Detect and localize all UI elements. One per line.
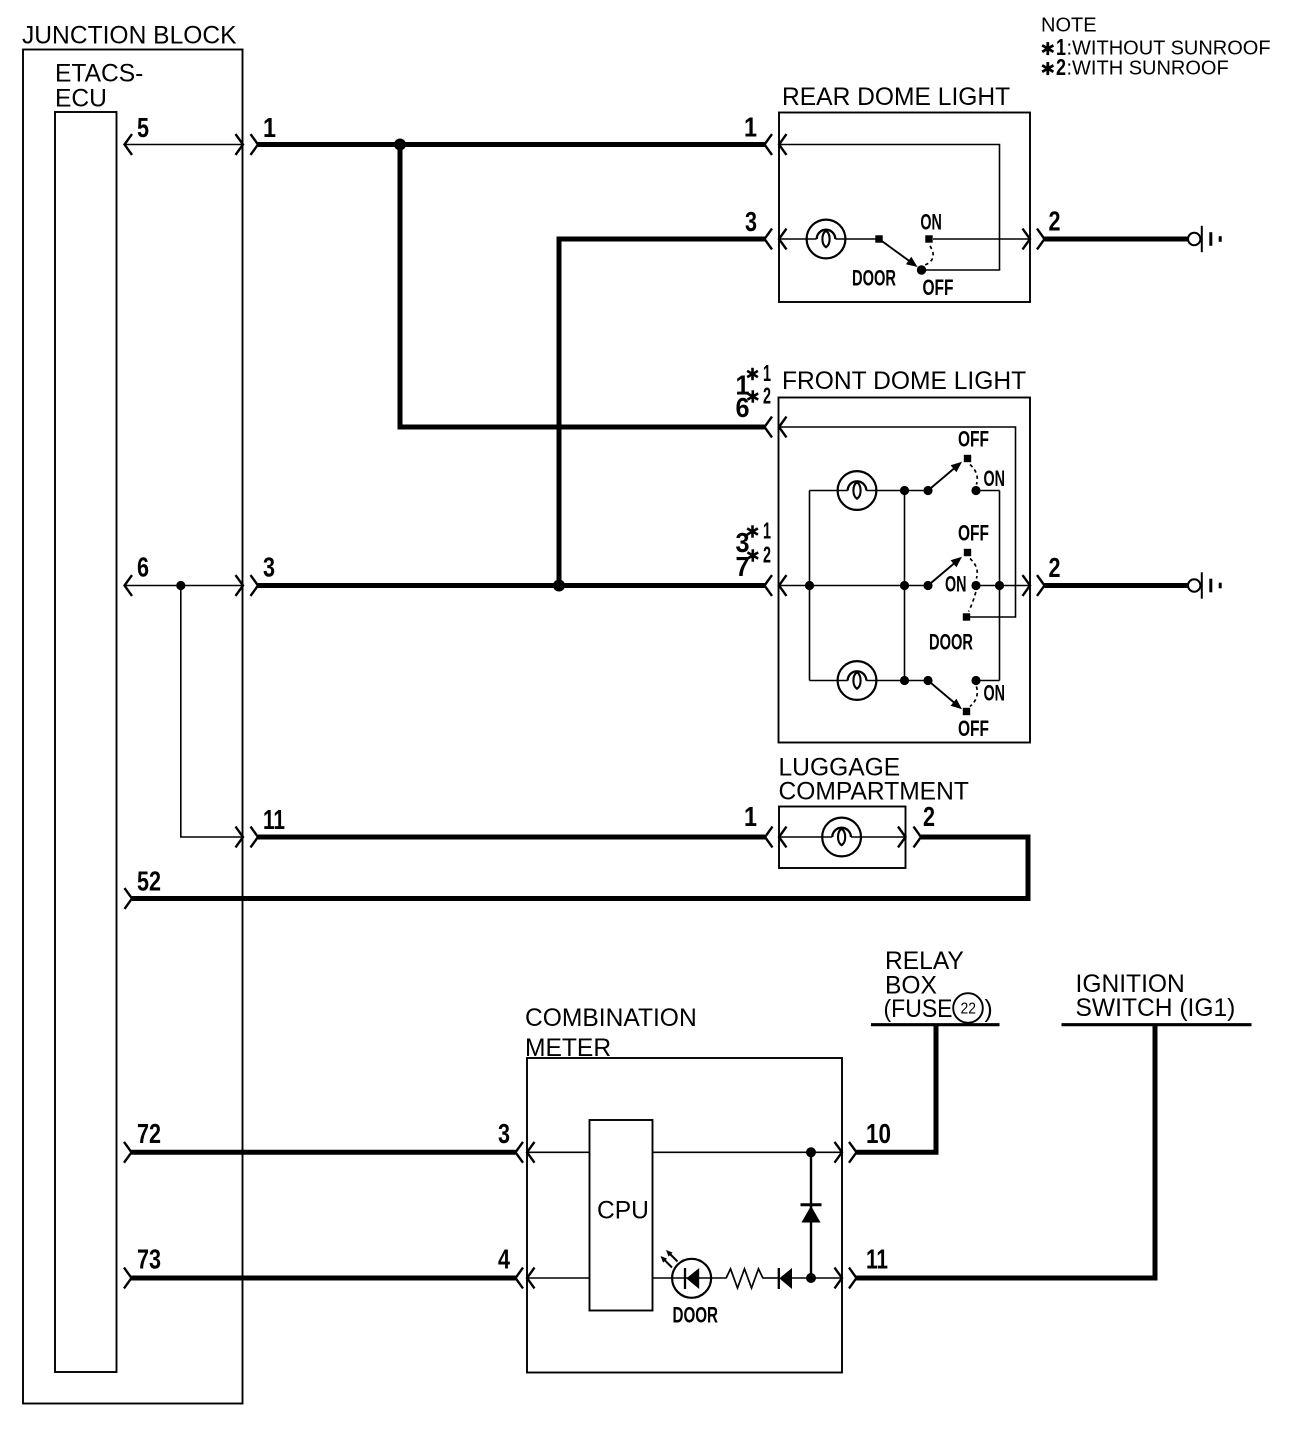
pin 5 label — [137, 112, 149, 143]
CPU box — [590, 1120, 653, 1311]
arrowhead at pin 72 (points right) — [124, 1142, 132, 1163]
wire luggage pin1 to lamp — [779, 836, 832, 838]
OFF label (rear dome) — [923, 275, 954, 300]
wire lamp to luggage pin2 — [851, 836, 906, 838]
rear dome lamp — [807, 220, 846, 259]
rear dome light box — [779, 113, 1030, 303]
DOOR label (switch2) — [929, 630, 973, 655]
front dome left bus vertical — [809, 491, 811, 681]
front dome right vertical (ON bus) — [999, 491, 1001, 681]
wire pin5 (thin, inside J/B) — [125, 144, 244, 146]
switch3 common contact — [923, 676, 932, 685]
wire CM pin3 to CPU — [527, 1151, 590, 1153]
arrowhead rear dome pin 2 (outside) — [1037, 229, 1045, 250]
svg-text::WITHOUT SUNROOF: :WITHOUT SUNROOF — [1067, 38, 1271, 60]
arrowhead luggage pin 2 (inside) — [898, 827, 906, 848]
wire lamp2 row — [810, 680, 925, 682]
svg-text:5: 5 — [137, 112, 149, 143]
svg-text:4: 4 — [498, 1244, 510, 1275]
svg-text:3: 3 — [745, 206, 757, 237]
wire J/B pin11 to luggage lamp pin1 (thick) — [258, 835, 765, 840]
svg-text:ON: ON — [920, 210, 942, 235]
arrowhead CM pin 10 (outside) — [849, 1142, 857, 1163]
relay box bottom bar — [871, 1023, 1000, 1026]
svg-text:2: 2 — [1049, 206, 1061, 237]
switch2 ON contact — [971, 581, 980, 590]
arrowhead CM pin 11 (outside) — [849, 1268, 857, 1289]
svg-text:11: 11 — [263, 804, 285, 835]
note star 1 — [1042, 42, 1053, 55]
OFF label (switch3) — [958, 716, 989, 741]
wire front dome pin2 to ground (thick) — [1045, 583, 1189, 588]
ETACS-ECU box — [55, 112, 117, 1372]
wire J/B pin1 to rear dome pin1 (thick) — [258, 142, 765, 147]
wire rear dome pin2 to ground (thick) — [1045, 237, 1189, 242]
arrowhead CM pin 10 (inside) — [835, 1142, 843, 1163]
svg-text:7: 7 — [736, 551, 750, 582]
svg-text:11: 11 — [866, 1244, 888, 1275]
switch2 DOOR contact — [963, 613, 970, 620]
svg-text:OFF: OFF — [958, 427, 989, 452]
arrowhead at ETACS-ECU pin 6 — [125, 575, 133, 596]
note *1 text — [1056, 34, 1271, 60]
arrowhead front dome pin 2 (outside) — [1037, 575, 1045, 596]
wire pin6 (thin, inside J/B) — [125, 585, 244, 587]
svg-text:2: 2 — [1049, 552, 1061, 583]
svg-text:OFF: OFF — [958, 716, 989, 741]
arrowhead rear dome pin 2 (inside) — [1023, 229, 1031, 250]
pin 3*1/7*2 label — [736, 518, 772, 583]
wire node A down and right to front dome pin 1/6 (thick) — [400, 142, 765, 427]
front dome node D3 — [995, 581, 1004, 590]
pin 1 label (luggage) — [744, 801, 757, 832]
svg-text:1: 1 — [744, 801, 757, 832]
wire diode to CM pin 11 — [792, 1277, 842, 1279]
diode D2 (series) — [779, 1268, 792, 1289]
svg-text:22: 22 — [961, 1001, 977, 1018]
switch3 OFF contact — [963, 708, 970, 715]
rear dome OFF contact dot — [917, 265, 926, 274]
ignition switch bottom bar — [1062, 1023, 1252, 1026]
wire ignition switch to CM pin 11 (thick) — [857, 1025, 1156, 1278]
pin 4 label (CM) — [498, 1244, 510, 1275]
arrowhead at pin 73 (points right) — [124, 1268, 132, 1289]
wire rear dome pin1 internal loop — [779, 145, 1000, 271]
switch1 dashed arc — [970, 465, 977, 485]
wire switch3 ON to right vertical — [976, 680, 1000, 682]
OFF label (switch1) — [958, 427, 989, 452]
arrowhead at J/B edge pin 3 (inside) — [236, 575, 244, 596]
svg-text:73: 73 — [137, 1244, 161, 1275]
svg-text:OFF: OFF — [923, 275, 954, 300]
svg-text:DOOR: DOOR — [929, 630, 973, 655]
svg-text:ON: ON — [984, 681, 1006, 706]
arrowhead rear dome pin 3 (inside) — [779, 229, 787, 250]
rear dome switch blade (DOOR position) — [879, 239, 918, 267]
svg-text:1: 1 — [744, 112, 757, 143]
rear dome light title — [782, 84, 1010, 111]
rear dome switch dashed arc ON-OFF — [925, 246, 934, 265]
note *2 text — [1056, 54, 1229, 80]
ground (rear dome) — [1188, 226, 1220, 252]
pin 1 label (rear dome light) — [744, 112, 757, 143]
svg-text:DOOR: DOOR — [852, 266, 896, 291]
arrowhead at pin 52 (points right) — [125, 888, 133, 909]
resistor — [726, 1269, 763, 1288]
arrowhead front dome pin 1/6 (outside) — [765, 417, 773, 438]
switch1 blade — [928, 462, 962, 491]
wire resistor to diode — [763, 1277, 779, 1279]
front dome node D1 — [805, 581, 814, 590]
arrowhead CM pin 11 (inside) — [835, 1268, 843, 1289]
pin 2 label (rear dome) — [1049, 206, 1061, 237]
luggage lamp — [822, 818, 861, 857]
ground (front dome) — [1188, 572, 1220, 598]
arrowhead at J/B edge pin 3 (outside) — [251, 575, 259, 596]
switch2 OFF contact — [964, 549, 971, 556]
pin 2 label (front dome) — [1049, 552, 1061, 583]
svg-text:DOOR: DOOR — [673, 1303, 719, 1328]
svg-text:2: 2 — [1056, 54, 1066, 80]
junction node A — [394, 139, 406, 151]
svg-text:2: 2 — [763, 383, 771, 409]
ETACS-ECU label — [55, 61, 143, 113]
fuse 22 label — [884, 993, 993, 1023]
arrowhead at J/B edge pin 1 (outside) — [251, 134, 259, 155]
wire pin3 to lamp — [779, 238, 817, 240]
svg-text:1: 1 — [763, 518, 771, 544]
wire ON contact to pin 2 — [933, 238, 1030, 240]
svg-text:72: 72 — [137, 1118, 161, 1149]
svg-text:ON: ON — [984, 466, 1006, 491]
svg-text:OFF: OFF — [958, 521, 989, 546]
wire lamp1 row — [810, 490, 925, 492]
svg-text:FRONT DOME LIGHT: FRONT DOME LIGHT — [782, 368, 1026, 395]
rear dome switch common contact — [875, 235, 882, 242]
junction node B (to pin 11 drop) — [176, 581, 185, 590]
junction node C — [553, 580, 565, 592]
wire pin72 (thick) — [132, 1150, 516, 1155]
arrowhead at rear dome pin 1 (inside) — [779, 134, 787, 155]
svg-text:6: 6 — [736, 392, 750, 423]
pin 11 label (CM) — [866, 1244, 888, 1275]
arrowhead CM pin 3 (inside) — [527, 1142, 535, 1163]
arrowhead at J/B edge pin 11 (outside) — [251, 827, 259, 848]
svg-text:10: 10 — [866, 1118, 891, 1149]
note title — [1041, 14, 1097, 36]
wire CPU to LED — [653, 1277, 727, 1279]
pin 10 label — [866, 1118, 891, 1149]
svg-text:CPU: CPU — [597, 1198, 649, 1225]
switch3 dashed arc — [970, 687, 977, 707]
wire CPU to CM pin10 — [653, 1151, 843, 1153]
front dome node L2 — [900, 676, 909, 685]
pin 3 label (rear dome light) — [745, 206, 757, 237]
note star 2 — [1042, 62, 1053, 75]
arrowhead luggage pin 2 (outside) — [914, 827, 922, 848]
combination meter title — [525, 1005, 697, 1062]
wire luggage pin2 down to pin52 row (thick) — [132, 837, 1028, 899]
OFF label (switch2) — [958, 521, 989, 546]
pin 6 label — [137, 552, 149, 583]
svg-text:SWITCH (IG1): SWITCH (IG1) — [1076, 995, 1236, 1022]
wire pin73 (thick) — [132, 1276, 516, 1281]
svg-text:NOTE: NOTE — [1041, 14, 1097, 36]
arrowhead front dome pin 1/6 (inside) — [779, 417, 787, 438]
junction node F — [806, 1273, 816, 1283]
ON label (switch3) — [984, 681, 1006, 706]
relay box label — [885, 948, 964, 1000]
arrowhead CM pin 3 (outside) — [516, 1142, 524, 1163]
pin 2 label (luggage) — [923, 801, 935, 832]
combination meter box — [527, 1058, 842, 1373]
switch1 OFF contact — [964, 455, 971, 462]
switch2 dashed arc lower — [969, 592, 976, 612]
switch3 ON contact — [971, 676, 980, 685]
front dome lamp 1 — [838, 471, 877, 510]
svg-text:(FUSE: (FUSE — [884, 996, 953, 1023]
arrowhead front dome pin 3/7 (outside) — [765, 575, 773, 596]
luggage lamp box — [779, 807, 906, 869]
arrowhead front dome pin 3/7 (inside) — [779, 575, 787, 596]
svg-text:2: 2 — [923, 801, 935, 832]
pin 3 label (J/B) — [263, 552, 275, 583]
arrowhead at ETACS-ECU pin 5 — [125, 134, 133, 155]
pin 3 label (CM) — [498, 1118, 510, 1149]
junction node E — [806, 1147, 816, 1157]
wire switch1 ON to right vertical — [976, 490, 1000, 492]
wire front dome pin1/6 to door contact — [779, 427, 1016, 617]
wire relay box fuse22 to CM pin 10 (thick) — [857, 1025, 937, 1153]
svg-text:3: 3 — [498, 1118, 510, 1149]
switch1 common contact — [923, 486, 932, 495]
LED emission arrows — [661, 1250, 678, 1268]
junction block box — [23, 50, 243, 1404]
svg-text:COMBINATION: COMBINATION — [525, 1005, 697, 1032]
ON label (rear dome) — [920, 210, 942, 235]
svg-text:JUNCTION BLOCK: JUNCTION BLOCK — [22, 23, 237, 50]
arrowhead rear dome pin 3 (outside) — [765, 229, 773, 250]
rear dome switch ON contact — [925, 235, 932, 242]
svg-text:ECU: ECU — [55, 85, 107, 112]
arrowhead front dome pin 2 (inside) — [1023, 575, 1031, 596]
switch1 ON contact — [971, 486, 980, 495]
pin 52 label — [137, 866, 161, 897]
svg-text:1: 1 — [263, 112, 276, 143]
svg-text:6: 6 — [137, 552, 149, 583]
svg-text:2: 2 — [763, 542, 771, 568]
arrowhead at rear dome pin 1 (outside) — [765, 134, 773, 155]
switch3 blade — [928, 681, 962, 710]
svg-text:ON: ON — [945, 572, 967, 597]
wire lamp to switch common — [835, 238, 879, 240]
pin 1 label (J/B) — [263, 112, 276, 143]
svg-text::WITH SUNROOF: :WITH SUNROOF — [1067, 58, 1229, 80]
front dome light title — [782, 368, 1026, 395]
svg-text:52: 52 — [137, 866, 161, 897]
wire rear dome pin3 left and down to front dome row (thick) — [559, 239, 765, 586]
DOOR label (LED) — [673, 1303, 719, 1328]
arrowhead luggage pin 1 (outside) — [765, 827, 773, 848]
svg-text:RELAY: RELAY — [885, 948, 964, 975]
pin 1*1/6*2 label — [736, 360, 772, 423]
wire switch2 ON to pin 2 — [976, 585, 1030, 587]
wire J/B pin3 to front dome pin 3/7 (thick) — [258, 583, 765, 588]
svg-text:ETACS-: ETACS- — [55, 61, 143, 88]
svg-text:COMPARTMENT: COMPARTMENT — [779, 778, 969, 805]
arrowhead CM pin 4 (outside) — [516, 1268, 524, 1289]
arrowhead luggage pin 1 (inside) — [779, 827, 787, 848]
CPU label — [597, 1198, 649, 1225]
switch2 blade — [928, 557, 962, 586]
pin 11 label (J/B) — [263, 804, 285, 835]
wire CM pin4 to CPU — [527, 1277, 590, 1279]
ignition switch label — [1076, 971, 1236, 1022]
svg-text:3: 3 — [263, 552, 275, 583]
wire front dome row D internal — [779, 585, 924, 587]
svg-text:REAR DOME LIGHT: REAR DOME LIGHT — [782, 84, 1010, 111]
ON label (switch1) — [984, 466, 1006, 491]
switch2 common contact — [923, 581, 932, 590]
diode D1 (shunt, vertical) — [801, 1152, 822, 1278]
junction block label — [22, 23, 237, 50]
front dome node D2 — [900, 581, 909, 590]
switch2 dashed arc upper — [970, 559, 977, 579]
front dome light box — [779, 398, 1031, 743]
DOOR label (rear dome) — [852, 266, 896, 291]
ON label (switch2) — [945, 572, 967, 597]
front dome middle vertical — [904, 491, 906, 681]
svg-text:): ) — [985, 996, 993, 1023]
front dome lamp 2 — [838, 661, 877, 700]
pin 73 label — [137, 1244, 161, 1275]
pin 72 label — [137, 1118, 161, 1149]
arrowhead CM pin 4 (inside) — [527, 1268, 535, 1289]
luggage compartment title — [779, 755, 969, 806]
front dome node L1 — [900, 486, 909, 495]
door LED indicator — [672, 1259, 711, 1298]
arrowhead at J/B edge pin 1 (inside) — [236, 134, 244, 155]
wire node B down to pin 11 row (thin) — [181, 586, 243, 838]
arrowhead at J/B edge pin 11 (inside) — [236, 827, 244, 848]
